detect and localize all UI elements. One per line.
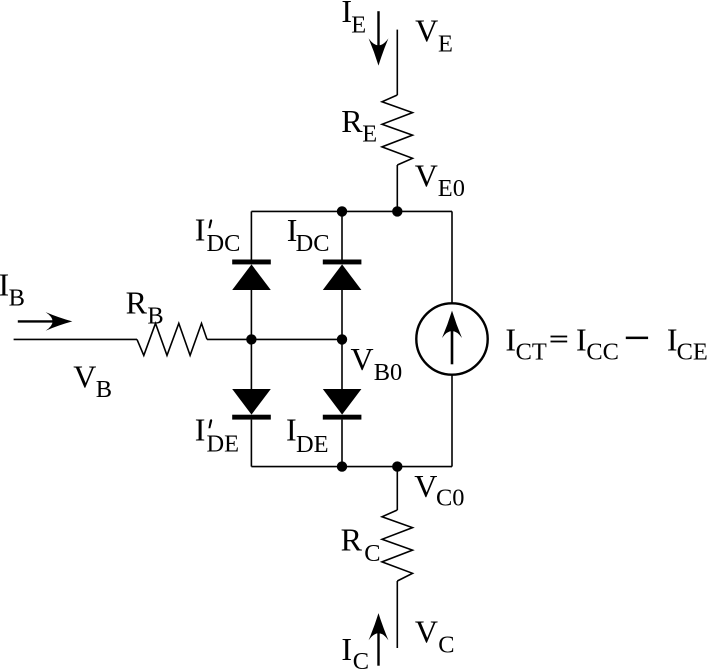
wire: right branch lower <box>451 375 453 467</box>
svg-text:DE: DE <box>207 431 240 458</box>
label I_DE <box>286 412 329 458</box>
label I'_DE <box>195 412 239 458</box>
svg-text:C0: C0 <box>436 484 464 511</box>
svg-text:R: R <box>341 522 363 558</box>
svg-text:B0: B0 <box>374 359 402 386</box>
node dot top-mid <box>337 206 347 216</box>
label equation I_CT = I_CC - I_CE <box>505 321 707 365</box>
label I_C <box>341 631 369 669</box>
svg-text:E: E <box>438 30 453 57</box>
svg-text:B: B <box>147 302 163 329</box>
wire: bottom rail <box>251 466 452 468</box>
label R_E <box>341 103 377 147</box>
diode D1 (I'_DC, up-pointing) <box>232 260 271 340</box>
svg-text:DE: DE <box>296 431 329 458</box>
node dot top-emitter <box>392 206 402 216</box>
svg-text:DC: DC <box>296 230 330 257</box>
label V_E <box>415 12 453 57</box>
resistor R_E <box>382 95 413 165</box>
svg-text:E: E <box>351 11 366 38</box>
label V_B <box>73 359 112 403</box>
wire: mid column upper <box>341 211 343 261</box>
svg-text:B: B <box>96 376 112 403</box>
label R_C <box>341 522 381 567</box>
wire: top rail <box>251 210 452 212</box>
node dot bottom-collector <box>392 461 402 471</box>
svg-text:CC: CC <box>586 339 619 366</box>
svg-text:V: V <box>415 614 438 650</box>
node dot mid-left <box>246 334 256 344</box>
diode D4 (I_DE, down-pointing) <box>323 339 362 466</box>
arrow: I_E current arrow (down) <box>369 11 389 65</box>
wire: right branch upper <box>451 211 453 303</box>
svg-text:I: I <box>195 412 206 448</box>
svg-text:I: I <box>576 321 587 357</box>
label V_B0 <box>351 341 403 386</box>
wire: base horizontal left <box>14 338 137 340</box>
diode D3 (I'_DE, down-pointing) <box>232 339 271 466</box>
svg-text:I: I <box>341 631 352 667</box>
arrow: I_C current arrow (up) <box>369 613 389 666</box>
svg-text:DC: DC <box>207 230 241 257</box>
svg-text:I: I <box>505 321 516 357</box>
wire: middle rail <box>251 338 342 340</box>
label I_E <box>341 0 366 38</box>
label V_C <box>415 614 455 659</box>
label I_DC <box>287 212 330 257</box>
label I'_DC <box>195 212 241 258</box>
label V_C0 <box>414 468 464 512</box>
svg-text:E0: E0 <box>438 175 465 202</box>
wire: base to bridge <box>207 338 251 340</box>
svg-text:CE: CE <box>677 339 707 366</box>
resistor R_B <box>137 323 207 355</box>
svg-text:I: I <box>195 212 206 248</box>
svg-text:R: R <box>126 285 148 321</box>
arrow: I_B current arrow (right) <box>18 312 73 331</box>
node dot mid-mid <box>337 334 347 344</box>
svg-text:V: V <box>415 158 438 194</box>
label I_B <box>0 267 25 312</box>
resistor R_C <box>382 510 413 581</box>
svg-text:V: V <box>73 359 96 395</box>
svg-text:V: V <box>415 12 438 48</box>
current source I_CT circle <box>416 303 487 374</box>
svg-text:B: B <box>9 285 25 312</box>
svg-text:C: C <box>353 648 369 669</box>
label R_B <box>126 285 164 330</box>
svg-text:C: C <box>364 540 380 567</box>
node dot bottom-mid <box>337 461 347 471</box>
diode D2 (I_DC, up-pointing) <box>323 260 362 340</box>
svg-text:C: C <box>438 632 454 659</box>
wire: collector upper vertical <box>396 467 398 510</box>
wire: emitter top vertical <box>396 30 398 95</box>
svg-text:V: V <box>351 341 374 377</box>
wire: collector lower vertical <box>396 581 398 648</box>
svg-text:E: E <box>362 120 377 147</box>
wire: left column upper <box>250 211 252 261</box>
label V_E0 <box>415 158 465 202</box>
svg-text:V: V <box>414 468 437 504</box>
svg-text:CT: CT <box>516 339 547 366</box>
wire: emitter lower vertical to top rail <box>396 165 398 211</box>
svg-text:R: R <box>341 103 363 139</box>
